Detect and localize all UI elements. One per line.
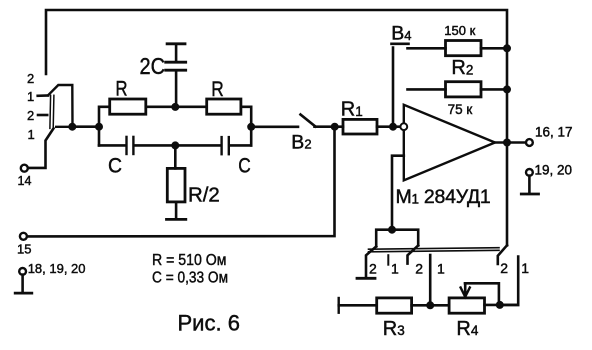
node J [426, 301, 434, 309]
resistor R (right) [207, 99, 241, 114]
connector X2 pin 1c [500, 257, 518, 305]
terminal 19,20 [526, 169, 533, 176]
wire X1 to twin-T [72, 125, 99, 128]
wire twin-T to B2 [251, 126, 298, 129]
svg-text:Рис. 6: Рис. 6 [178, 311, 240, 336]
connector X2 board edge [369, 248, 500, 252]
svg-text:C: C [108, 154, 122, 178]
wire R1 to op-amp input [377, 125, 400, 128]
svg-text:R = 510 Ом: R = 510 Ом [152, 252, 227, 269]
svg-text:R3: R3 [383, 318, 405, 340]
svg-text:2: 2 [369, 260, 377, 276]
wire op-amp output [495, 141, 526, 144]
wire supply bracket [376, 230, 418, 247]
wire twin-T input riser [99, 107, 110, 146]
svg-text:R/2: R/2 [188, 184, 220, 206]
wire right rail (feedback column) [506, 46, 509, 245]
ground (19,20) [528, 176, 531, 193]
svg-text:15: 15 [17, 242, 31, 257]
svg-text:2: 2 [27, 108, 34, 123]
inverting input circle [400, 123, 407, 130]
node F [503, 44, 511, 52]
connector X2 pin 2a [366, 247, 376, 278]
wire between R resistors [146, 106, 207, 109]
connector X1 (input, perspective) [48, 85, 73, 128]
svg-text:R: R [116, 77, 128, 101]
svg-text:16, 17: 16, 17 [535, 124, 573, 139]
connector X2 pin 1a [387, 255, 389, 265]
svg-text:C = 0,33 Ом: C = 0,33 Ом [152, 270, 228, 287]
svg-text:1: 1 [28, 127, 35, 142]
svg-text:18, 19, 20: 18, 19, 20 [28, 261, 86, 276]
terminal 16,17 [526, 139, 533, 146]
wire B4 pivot to node E [392, 48, 395, 127]
connector X2 pin 2c [498, 245, 507, 264]
connector X2 pin 1b [429, 255, 432, 305]
svg-text:2C: 2C [140, 53, 166, 79]
wire X1 to terminal 14 [28, 128, 54, 168]
ground (X2 pin 2a) [357, 277, 375, 280]
node K [496, 301, 504, 309]
node bottom mid [171, 141, 179, 149]
terminal 18,19,20 [19, 268, 26, 275]
node I (+input to bracket) [388, 226, 396, 234]
wire B4 contact to R2a [408, 47, 446, 50]
svg-text:14: 14 [18, 174, 32, 188]
svg-text:C: C [238, 153, 251, 177]
svg-text:М1 284УД1: М1 284УД1 [396, 186, 491, 208]
capacitor 2C [166, 44, 186, 107]
resistor R (left) [110, 99, 146, 114]
node H (output on rail) [503, 139, 511, 147]
ground (18,19,20) [21, 275, 24, 292]
svg-text:2: 2 [500, 260, 508, 276]
svg-text:R: R [211, 77, 224, 101]
svg-text:1: 1 [521, 260, 529, 276]
resistor R1 [343, 119, 377, 134]
node A (X1 output) [68, 123, 76, 131]
wire B2 to node D [315, 125, 344, 128]
wire top feedback rail [46, 10, 507, 74]
wire twin-T bottom rail mid [134, 144, 221, 147]
capacitor C (right) [222, 137, 229, 154]
potentiometer R4 [449, 283, 499, 313]
wire twin-T bottom rail right [230, 144, 251, 147]
svg-text:150 к: 150 к [444, 23, 475, 38]
svg-text:2: 2 [415, 260, 423, 276]
svg-text:R2: R2 [451, 57, 473, 79]
wire open contact to R2b [408, 88, 446, 91]
wire node D to terminal 15 [27, 127, 335, 237]
resistor R2 75k [446, 82, 482, 97]
node C (twin-T output) [247, 123, 255, 131]
op-amp U1 triangle [404, 105, 495, 181]
switch B4 blade [392, 42, 409, 45]
terminal 15 [20, 233, 27, 240]
wire R4 to pin 1c [485, 304, 519, 307]
resistor R2 150k [446, 41, 482, 56]
connector X2 pin 2b [408, 245, 419, 263]
wire R3 to R4 [412, 304, 450, 307]
wire R2b to rail [481, 88, 507, 91]
capacitor C (left) [127, 137, 134, 154]
switch B2 [301, 115, 316, 127]
node G [503, 85, 511, 93]
svg-text:1: 1 [27, 89, 34, 104]
resistor R/2 [167, 145, 186, 219]
wire R2a to rail [481, 47, 507, 50]
resistor R3 [339, 298, 412, 313]
pin stub 1 (X1) [38, 94, 48, 97]
wire twin-T output riser [241, 107, 251, 146]
svg-text:R1: R1 [341, 99, 363, 121]
svg-text:R4: R4 [456, 318, 478, 340]
node B (twin-T input) [95, 123, 103, 131]
svg-text:75 к: 75 к [448, 102, 473, 117]
svg-text:1: 1 [437, 260, 445, 276]
svg-text:В2: В2 [291, 131, 311, 153]
node E (inverting input) [389, 123, 397, 131]
wire twin-T bottom rail left [99, 144, 126, 147]
node top mid [171, 103, 179, 111]
svg-text:19, 20: 19, 20 [535, 163, 573, 178]
svg-text:1: 1 [391, 260, 399, 276]
svg-text:2: 2 [27, 71, 34, 86]
wire non-inverting input [392, 156, 404, 230]
pin stub 2 (X1) [38, 114, 47, 117]
node D [331, 123, 339, 131]
svg-text:В4: В4 [391, 23, 411, 45]
terminal 14 [21, 165, 28, 172]
